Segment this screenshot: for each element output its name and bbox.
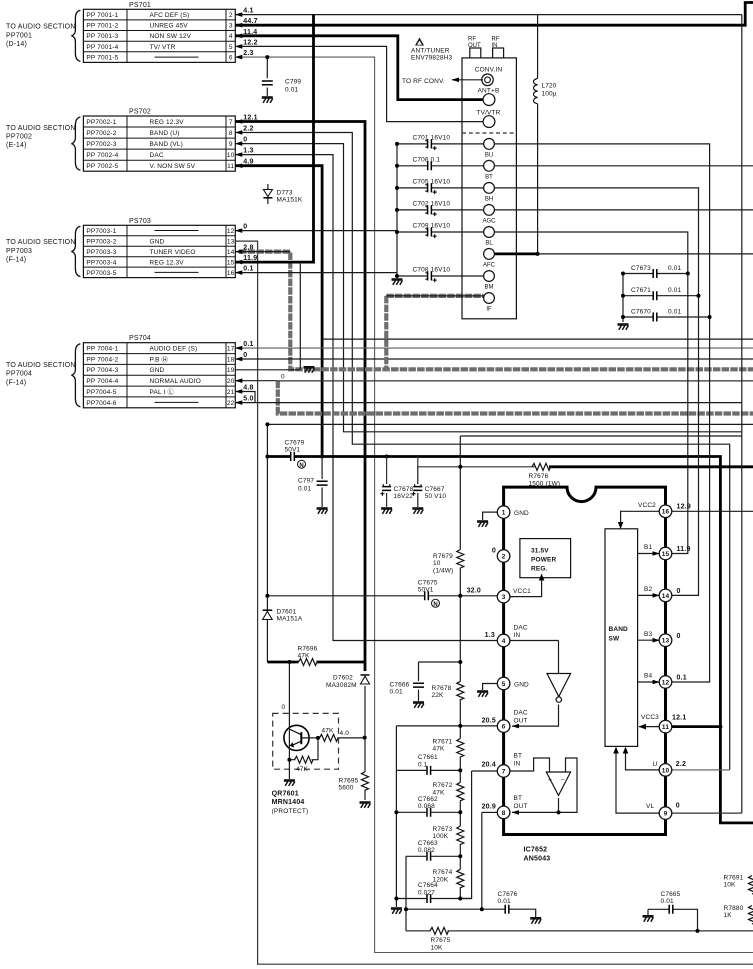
svg-text:3: 3 [229, 23, 233, 30]
svg-text:BU: BU [485, 152, 493, 158]
wire U wire right [672, 769, 730, 771]
wire net A horizontal [267, 423, 753, 425]
junction C7670 left junction [621, 315, 625, 319]
resistor R7672 47K [457, 782, 464, 801]
wire 44.7 UNREG 45V rail [235, 3, 753, 26]
svg-text:15: 15 [227, 259, 235, 266]
transistor QR7601 dashed box [273, 713, 339, 769]
ground tuner cap bus [392, 280, 403, 285]
svg-text:22: 22 [227, 400, 235, 407]
svg-text:32.0: 32.0 [467, 588, 481, 595]
svg-text:N: N [299, 463, 303, 469]
svg-text:PP 7001-2: PP 7001-2 [86, 23, 118, 30]
wire 5V rail [267, 455, 290, 458]
wire ladder spine seg [459, 887, 461, 898]
svg-text:C708 16V10: C708 16V10 [413, 267, 451, 274]
svg-text:C7670: C7670 [631, 309, 651, 316]
wire P.B from pin18 [235, 358, 753, 360]
resistor R7673 100K [457, 826, 464, 845]
svg-text:BT: BT [485, 174, 493, 180]
capacitor C709 16V10 [425, 228, 436, 239]
wire BAND U bus from pin8 [235, 133, 729, 770]
svg-text:12: 12 [662, 679, 670, 686]
diode D7601 MA151A [263, 612, 273, 620]
svg-text:0.01: 0.01 [668, 265, 681, 272]
junction VCC3 bus junction [718, 725, 722, 729]
connector table PS701 [6, 2, 258, 63]
svg-text:PP7003-3: PP7003-3 [86, 249, 116, 256]
arrowhead into power reg [539, 574, 545, 581]
wire PP7001-5 2.3V bus [235, 57, 753, 952]
svg-text:47K: 47K [296, 766, 309, 773]
resistor R7675 [430, 927, 449, 934]
tuner pin BM [484, 271, 495, 282]
RF IN connector [493, 48, 504, 58]
svg-text:47K: 47K [322, 728, 335, 735]
junction C7670 right junction [708, 315, 712, 319]
wire shielded cable 2 [278, 381, 753, 414]
svg-text:0.01: 0.01 [668, 309, 681, 316]
svg-text:+: + [548, 777, 552, 784]
tuner pin BT [484, 160, 495, 171]
wire GND bus from pin13 [235, 241, 753, 964]
wire L720 branch lower [537, 104, 539, 254]
junction rail C7678 junction [385, 455, 389, 459]
svg-text:9: 9 [229, 141, 233, 148]
IC pin 6 [497, 720, 510, 733]
svg-text:PP 7002-5: PP 7002-5 [86, 163, 118, 170]
resistor R7674 120K [457, 869, 464, 888]
wire tuner AGC left wire [397, 209, 427, 211]
wire C7670 wire [623, 316, 653, 318]
junction ladder C7663 [458, 854, 462, 858]
wire TUNER VIDEO shielded cable [239, 252, 753, 370]
svg-text:10: 10 [662, 767, 670, 774]
capacitor C7665 [669, 905, 673, 914]
ANT/TUNER module box [462, 58, 516, 319]
junction C706 bus junction [395, 164, 399, 168]
wire R7676 rail [418, 457, 535, 467]
svg-text:AFC DEF (S): AFC DEF (S) [150, 12, 190, 19]
junction C7673 left junction [621, 272, 625, 276]
resistor R7695 vertical [362, 772, 369, 791]
junction C7673 right junction [686, 272, 690, 276]
wire video shield drain [299, 262, 301, 369]
svg-text:0: 0 [677, 588, 681, 595]
BAND SW box [605, 529, 638, 747]
svg-text:11.9: 11.9 [677, 546, 691, 553]
IC pin 4 [497, 634, 510, 647]
wire L720 branch upper [537, 15, 539, 79]
wire GND stub pin19 [235, 369, 300, 371]
svg-text:PP7003-2: PP7003-2 [86, 238, 116, 245]
wire PP7001-1 AFC DEF to top rail [235, 14, 742, 16]
capacitor C702 16V10 [425, 205, 436, 216]
svg-text:C709 16V10: C709 16V10 [413, 223, 451, 230]
wire opamp out to pin8 [512, 798, 559, 812]
wire ladder spine seg [459, 699, 461, 738]
svg-text:11: 11 [662, 724, 669, 731]
junction R7679 bottom junction [458, 594, 462, 598]
wire inverter out to pin6 [512, 705, 559, 727]
warning triangle [415, 38, 424, 46]
connector table PS702 [6, 109, 258, 172]
svg-text:16: 16 [662, 509, 670, 516]
wire AUDIO DEF (S) from pin17 [235, 347, 753, 349]
wire C7666 link [419, 661, 461, 663]
wire pin6 wire left [396, 725, 497, 727]
svg-text:4.0: 4.0 [340, 730, 350, 737]
resistor R7880 edge [749, 906, 753, 925]
svg-text:7: 7 [502, 768, 506, 775]
svg-text:PP 7004-2: PP 7004-2 [86, 356, 118, 363]
wire VL wire right [672, 812, 742, 814]
wire tuner BU left wire [397, 143, 427, 145]
junction C709 bus junction [395, 230, 399, 234]
svg-text:GND: GND [514, 682, 529, 689]
svg-text:0: 0 [243, 137, 247, 144]
svg-text:NORMAL AUDIO: NORMAL AUDIO [150, 378, 201, 385]
capacitor C705 16V10 [425, 183, 436, 194]
IC pin 2 [497, 550, 510, 563]
ground pin19 [304, 367, 315, 372]
svg-text:PAL I Ⓛ: PAL I Ⓛ [150, 388, 175, 396]
svg-text:C705 16V10: C705 16V10 [413, 178, 451, 185]
junction R7678 bottom [458, 724, 462, 728]
wire audio line right [278, 380, 753, 382]
wire R7675 wire right [448, 930, 753, 932]
capacitor C7679 series [291, 452, 295, 461]
svg-text:AUDIO DEF (S): AUDIO DEF (S) [150, 346, 198, 353]
wire VCC3 arrow [639, 726, 659, 728]
ground C7666 [413, 703, 424, 708]
junction C705 bus junction [395, 186, 399, 190]
resistor R7676 [532, 463, 551, 470]
svg-text:NON SW 12V: NON SW 12V [150, 33, 192, 40]
svg-text:PP 7001-5: PP 7001-5 [86, 55, 118, 62]
ground pin1 [477, 522, 488, 527]
svg-text:PP7002-3: PP7002-3 [86, 141, 116, 148]
IC pin 15 [659, 547, 672, 560]
tuner pin BU [484, 139, 495, 150]
svg-text:18: 18 [227, 356, 235, 363]
svg-text:20.5: 20.5 [482, 718, 496, 725]
svg-text:TO AUDIO SECTION: TO AUDIO SECTION [6, 125, 76, 132]
junction rail 424 junction [265, 422, 269, 426]
svg-text:2.3: 2.3 [243, 50, 253, 57]
svg-text:BL: BL [485, 241, 493, 247]
wire C767x ground bus [622, 274, 624, 323]
svg-text:PP7004-5: PP7004-5 [86, 389, 116, 396]
tuner pin IF [484, 293, 495, 304]
svg-text:PP7003-5: PP7003-5 [86, 270, 116, 277]
ground C7676 [530, 918, 541, 923]
wire VCC1 rail [267, 595, 424, 597]
wire pin8 drop [481, 812, 483, 909]
capacitor C708 16V10 [425, 272, 436, 283]
IC pin 9 [659, 807, 672, 820]
wire REG 12.3V link pin15 to top rail [235, 15, 313, 263]
wire BH to B2 bus [495, 188, 699, 596]
svg-text:PP 7004-3: PP 7004-3 [86, 367, 118, 374]
IC pin 12 [659, 676, 672, 689]
capacitor C7662 0.068 [427, 808, 431, 817]
wire net B horizontal [460, 435, 742, 437]
junction R7675 C7665 junction [696, 929, 700, 933]
wire BT line [495, 165, 753, 167]
wire 5.0V line pin22 [235, 402, 742, 404]
inverter for DAC [547, 674, 571, 697]
svg-text:PP 7001-4: PP 7001-4 [86, 44, 118, 51]
capacitor C7676 [505, 905, 509, 914]
junction 4.0 junction [363, 736, 367, 740]
junction C708 bus junction [395, 274, 399, 278]
IC pin 11 [659, 720, 672, 733]
svg-text:REG 12.3V: REG 12.3V [150, 259, 185, 266]
wire VCC2 line [672, 510, 753, 512]
svg-text:14: 14 [662, 593, 670, 600]
wire C7664 wire [396, 898, 426, 900]
wire IF shielded cable [384, 296, 388, 369]
connector table PS704 [6, 335, 254, 408]
svg-text:TO AUDIO SECTION: TO AUDIO SECTION [6, 362, 76, 369]
junction R7679 top junction [458, 465, 462, 469]
wire left rail D7601 [266, 424, 268, 662]
svg-text:TO RF CONV.: TO RF CONV. [402, 78, 445, 85]
wire REG 12.3V bus from pin7 [235, 122, 365, 672]
wire NON SW 12V to ANT+B [235, 36, 484, 100]
svg-text:20: 20 [227, 378, 235, 385]
svg-text:0: 0 [282, 704, 286, 711]
svg-text:U: U [653, 761, 658, 768]
svg-text:1: 1 [502, 510, 506, 517]
IC pin 8 [497, 806, 510, 819]
ground pin5 [477, 692, 488, 697]
capacitor C799 [266, 57, 268, 96]
svg-text:6: 6 [229, 55, 233, 62]
svg-text:GND: GND [150, 367, 165, 374]
svg-text:10: 10 [227, 152, 235, 159]
svg-text:1.3: 1.3 [485, 632, 495, 639]
wire BAND VL bus from pin9 [235, 144, 742, 432]
svg-text:−: − [561, 777, 565, 784]
svg-text:VL: VL [646, 803, 654, 810]
wire pin8 stub left [482, 811, 498, 813]
svg-text:(F-14): (F-14) [6, 257, 26, 264]
capacitor C7675 series [425, 591, 429, 600]
wire TV/VTR from PP7001-4 [235, 46, 483, 121]
resistor R7679 vertical [457, 550, 464, 569]
arrow to conv in [452, 79, 483, 81]
junction rail-left junction [265, 455, 269, 459]
svg-text:TO AUDIO SECTION: TO AUDIO SECTION [6, 24, 76, 31]
wire AGC line [495, 209, 753, 211]
wire ladder spine seg [459, 844, 461, 869]
tuner internal dashed divider [462, 132, 516, 134]
svg-text:C701 16V10: C701 16V10 [413, 134, 451, 141]
ANT+B pin circle [483, 94, 495, 106]
arrow B1 [638, 553, 660, 555]
wire R7696 wire left [267, 661, 298, 664]
wire BL to B1 bus [495, 232, 688, 554]
svg-text:VCC2: VCC2 [638, 502, 656, 509]
svg-text:6: 6 [502, 724, 506, 731]
svg-text:PS702: PS702 [129, 109, 151, 116]
wire IF core [386, 295, 483, 297]
svg-text:BAND (VL): BAND (VL) [150, 141, 184, 148]
wire DAC IN to inverter [496, 640, 498, 642]
IC pin 3 [497, 590, 510, 603]
svg-text:REG 12.3V: REG 12.3V [150, 119, 185, 126]
wire U wire left [626, 748, 660, 770]
junction R7678 top [458, 660, 462, 664]
svg-text:0.1: 0.1 [677, 675, 687, 682]
connector table PS703 [6, 218, 257, 278]
junction ladder C7661 [458, 768, 462, 772]
wire D7602 lower bottom [364, 790, 366, 800]
wire tuner BH left wire [397, 187, 427, 189]
svg-text:8: 8 [502, 810, 506, 817]
junction C702 bus junction [395, 208, 399, 212]
svg-text:C706 0.1: C706 0.1 [413, 156, 441, 163]
resistor R7678 [457, 681, 464, 700]
junction bottom 909 pin8 [480, 907, 484, 911]
svg-text:12.1: 12.1 [672, 715, 686, 722]
capacitor C7666 [418, 662, 420, 701]
svg-text:PP7004: PP7004 [6, 371, 32, 378]
ground ladder left bus [391, 909, 402, 914]
svg-text:2.2: 2.2 [676, 761, 686, 768]
svg-text:ANT/TUNERENV79828H3: ANT/TUNERENV79828H3 [411, 48, 452, 62]
wire C7673 wire [623, 273, 653, 275]
svg-text:C767816V22: C767816V22 [394, 486, 414, 500]
RF OUT connector [470, 48, 481, 58]
svg-text:L720100µ: L720100µ [542, 83, 557, 98]
wire pin7 wire [510, 758, 550, 772]
svg-text:C702 16V10: C702 16V10 [413, 200, 451, 207]
emitter 47K resistor [289, 738, 318, 760]
wire PAL I stub pin21 [235, 392, 255, 403]
wire ladder left bus [395, 726, 397, 907]
wire V.NON SW branch right [322, 338, 753, 340]
svg-text:2: 2 [229, 12, 233, 19]
base 47K resistor [320, 734, 339, 741]
junction shield tee [385, 368, 387, 370]
wire VCC1 arrow to power reg [504, 580, 542, 597]
wire base 4.0 wire [338, 737, 365, 739]
wire C7661 wire [396, 769, 426, 771]
ground C799 [262, 98, 273, 103]
junction rail C797 junction [320, 455, 324, 459]
junction C7671 left junction [621, 294, 625, 298]
svg-text:9: 9 [664, 811, 668, 818]
svg-text:N: N [433, 602, 437, 608]
IC pin 16 [659, 505, 672, 518]
ground C767x [618, 325, 629, 330]
svg-text:BAND (U): BAND (U) [150, 130, 180, 137]
svg-text:0: 0 [677, 633, 681, 640]
wire VL wire left [616, 748, 659, 813]
arrow B2 [638, 594, 660, 596]
svg-text:4: 4 [502, 638, 506, 645]
svg-text:(PROTECT): (PROTECT) [272, 808, 309, 815]
IC pin 5 [497, 677, 510, 690]
junction C799 junction [265, 55, 269, 59]
wire bottom wire 909 [406, 908, 505, 910]
wire IF cable horizontal [386, 294, 483, 298]
svg-text:(E-14): (E-14) [6, 142, 27, 149]
capacitor C7661 0.1 [427, 766, 431, 775]
svg-text:2.2: 2.2 [243, 126, 253, 133]
ground C7678 [381, 509, 392, 514]
junction ladder C7664 [458, 897, 462, 901]
wire PP7003-1 to tuner cap bus [235, 230, 397, 232]
capacitor C706 0.1 [428, 161, 432, 170]
junction C701 bus junction [395, 142, 399, 146]
IC pin 1 [497, 506, 510, 519]
polarity mark C7679 N [298, 460, 306, 468]
ground C797 [317, 509, 328, 514]
capacitor C7663 0.082 [427, 852, 431, 861]
svg-text:PS703: PS703 [129, 218, 151, 225]
ground R7695 [360, 803, 371, 808]
arrow B4 [638, 681, 660, 683]
svg-text:0: 0 [676, 803, 680, 810]
polarity mark C7675 N [432, 599, 440, 607]
svg-text:0.1: 0.1 [243, 265, 253, 272]
svg-text:21: 21 [227, 389, 235, 396]
svg-text:13: 13 [662, 638, 670, 645]
svg-text:12: 12 [227, 228, 235, 235]
svg-text:20.4: 20.4 [482, 762, 496, 769]
svg-text:5: 5 [229, 44, 233, 51]
svg-text:PP7002-1: PP7002-1 [86, 119, 116, 126]
op-amp BT buffer [546, 772, 570, 796]
wire pin7 drop [460, 771, 471, 899]
svg-text:UNREG 45V: UNREG 45V [150, 23, 189, 30]
wire NORMAL AUDIO to shield [235, 380, 277, 382]
wire VCC3 wire [672, 725, 721, 728]
wire tuner BT left wire [397, 165, 427, 167]
tuner pin BL [484, 227, 495, 238]
svg-text:GND: GND [514, 510, 529, 517]
IC pin 13 [659, 634, 672, 647]
svg-text:1.3: 1.3 [243, 148, 253, 155]
svg-text:16: 16 [227, 270, 235, 277]
diode D7602 MA3082M [361, 676, 370, 684]
arrowhead VCC2 into band sw [618, 522, 624, 529]
tuner pin BH [484, 183, 495, 194]
svg-text:5.0: 5.0 [243, 395, 253, 402]
junction opamp out [557, 810, 561, 814]
svg-text:PP 7002-4: PP 7002-4 [86, 152, 118, 159]
svg-text:C766750 V10: C766750 V10 [425, 486, 447, 500]
svg-text:8: 8 [229, 130, 233, 137]
svg-text:B2: B2 [644, 586, 652, 593]
inductor L720 [533, 79, 537, 104]
svg-text:14: 14 [227, 249, 235, 256]
svg-text:B4: B4 [644, 673, 652, 680]
capacitor C7671 0.01 [653, 291, 657, 300]
svg-text:12.2: 12.2 [243, 40, 257, 47]
TV/VTR pin circle [483, 116, 495, 128]
wire ladder spine seg [459, 757, 461, 783]
junction L720 AFC junction [536, 252, 540, 256]
wire C7671 wire [623, 295, 653, 297]
op-amp IC IC7652 AN5043 outline [504, 487, 666, 834]
svg-text:7: 7 [229, 119, 233, 126]
svg-text:(D-14): (D-14) [6, 41, 27, 48]
